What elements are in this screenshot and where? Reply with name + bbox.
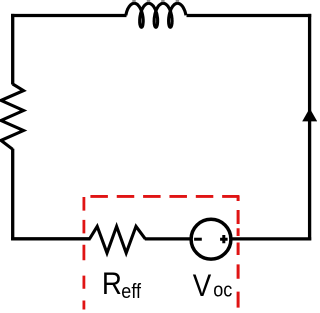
svg-text:eff: eff: [121, 281, 141, 303]
plus sign of V_oc: [220, 235, 228, 243]
resistor (left, unlabeled): [1, 84, 24, 149]
wire top: [11, 14, 126, 17]
red dashed box right edge: [237, 196, 240, 308]
wire top right: [187, 14, 312, 17]
svg-text:V: V: [193, 268, 212, 303]
red dashed box left edge: [83, 197, 86, 310]
wire bottom left: [11, 237, 90, 240]
wire left lower: [11, 149, 14, 241]
voltage source V_oc circle: [191, 219, 231, 259]
resistor R_eff: [90, 226, 146, 253]
svg-text:oc: oc: [213, 280, 232, 302]
current direction arrowhead (up): [302, 108, 317, 121]
minus sign of V_oc: [194, 238, 202, 241]
svg-text:R: R: [102, 266, 122, 301]
red dashed box (Thevenin equivalent region) top edge: [90, 195, 239, 198]
wire left upper: [11, 14, 14, 85]
wire bottom right: [231, 237, 311, 240]
inductor L1 coil: [126, 3, 186, 27]
wire right: [308, 14, 311, 241]
gray artifact marks above coil humps: [132, 0, 179, 2]
wire between R_eff and V_oc: [145, 237, 192, 240]
